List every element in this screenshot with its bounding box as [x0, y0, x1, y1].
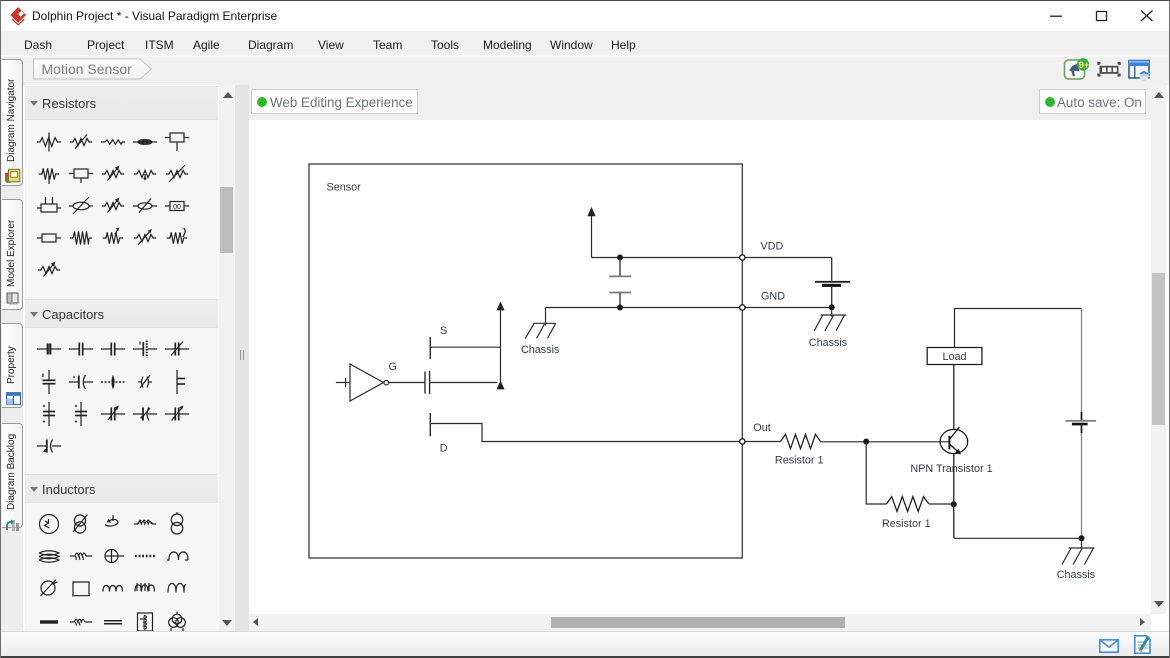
label GND: [761, 291, 785, 303]
palette capacitor icon 6: [36, 369, 62, 395]
svg-text:GND: GND: [761, 291, 785, 303]
wire Out to R1: [745, 441, 781, 443]
palette inductor icon 20: [164, 609, 190, 635]
battery B2: [1066, 412, 1097, 433]
svg-text:Sensor: Sensor: [327, 182, 362, 194]
svg-text:Resistor 1: Resistor 1: [775, 454, 824, 466]
wire channel vertical: [500, 309, 502, 383]
palette resistor icon 3: [100, 129, 126, 155]
palette resistor icon 16: [36, 225, 62, 251]
splitter: [235, 85, 249, 632]
palette inductor icon 16: [36, 609, 62, 635]
arrow channel (lower): [496, 381, 504, 390]
palette resistor icon 4: [132, 129, 158, 155]
v scrollbar: [1151, 85, 1166, 614]
status bar: [1, 631, 1170, 657]
title bar: [1, 1, 1170, 31]
transistor NPN Transistor 1: [940, 427, 968, 454]
menu bar: [1, 31, 1170, 57]
palette inductor icon 13: [100, 575, 126, 601]
palette capacitor icon 8: [100, 369, 126, 395]
wire emitter down: [953, 454, 955, 539]
wire VDD rail: [592, 257, 832, 259]
wire drain to Out: [430, 424, 742, 442]
ground chassis (power): [814, 308, 846, 331]
svg-text:D: D: [440, 443, 448, 455]
battery B1: [815, 258, 850, 308]
palette resistor icon 18: [100, 225, 126, 251]
node base junction: [863, 439, 869, 445]
palette inductor icon 1: [36, 511, 62, 537]
palette capacitor icon 15: [164, 401, 190, 427]
wire load to top rail: [955, 309, 1082, 348]
palette capacitor icon 1: [36, 336, 62, 362]
palette inductor icon 3: [100, 511, 126, 537]
palette capacitor icon 4: [132, 336, 158, 362]
wire R2 to emitter node: [929, 503, 954, 505]
palette inductor icon 11: [36, 575, 62, 601]
palette resistor icon 5: [164, 129, 190, 155]
palette resistor icon 8: [100, 161, 126, 187]
ground chassis (output): [1062, 538, 1095, 564]
wire GND rail: [546, 307, 832, 309]
palette capacitor icon 9: [132, 369, 158, 395]
resistor R2 (feedback): [886, 497, 929, 512]
svg-text:Chassis: Chassis: [521, 344, 560, 356]
node emitter junction: [951, 501, 957, 507]
label G: [389, 361, 397, 373]
palette resistor icon 19: [132, 225, 158, 251]
palette inductor icon 18: [100, 609, 126, 635]
svg-text:Chassis: Chassis: [1057, 569, 1096, 581]
port Out: [740, 439, 745, 444]
wire right rail upper: [1081, 309, 1083, 413]
palette: [25, 85, 237, 632]
wire gate to channel: [430, 382, 498, 384]
port VDD: [740, 255, 745, 260]
palette inductor icon 4: [132, 511, 158, 537]
capacitor C1 (decoupling): [609, 258, 631, 308]
palette resistor icon 21: [36, 257, 62, 283]
palette capacitor icon 10: [164, 369, 190, 395]
node battery ground junction: [829, 304, 835, 310]
palette resistor icon 14: [132, 193, 158, 219]
sidebar tabs: [1, 57, 23, 656]
label Resistor 1 (feedback): [882, 518, 931, 530]
label D: [440, 443, 448, 455]
wire GND drop to sensor chassis: [545, 308, 547, 326]
chips: [251, 89, 418, 114]
palette inductor icon 8: [100, 543, 126, 569]
palette inductor icon 10: [164, 543, 190, 569]
palette inductor icon 5: [164, 511, 190, 537]
palette capacitor icon 14: [132, 401, 158, 427]
palette inductor icon 12: [68, 575, 94, 601]
gray strip over canvas: [237, 85, 1170, 121]
ground chassis (sensor): [525, 323, 556, 338]
pin D drain bar: [429, 413, 431, 436]
palette capacitor icon 3: [100, 336, 126, 362]
palette resistor icon 7: [68, 161, 94, 187]
palette resistor icon 6: [36, 161, 62, 187]
resistor R1 (base): [781, 434, 821, 448]
label Out: [753, 422, 770, 434]
palette capacitor icon 12: [68, 401, 94, 427]
wire buffer to gate: [389, 382, 425, 384]
palette inductor icon 17: [68, 609, 94, 635]
palette inductor icon 14: [132, 575, 158, 601]
pin S source bar: [430, 337, 500, 359]
wire bottom rail: [954, 537, 1082, 539]
label Chassis (power): [809, 337, 848, 349]
palette capacitor icon 11: [36, 401, 62, 427]
palette resistor icon 17: [68, 225, 94, 251]
label Chassis (sensor): [521, 344, 560, 356]
palette resistor icon 12: [68, 193, 94, 219]
label S: [440, 325, 447, 337]
palette resistor icon 20: [164, 225, 190, 251]
load block Load: [927, 348, 982, 365]
svg-text:VDD: VDD: [761, 241, 784, 253]
canvas: [249, 120, 1151, 614]
palette resistor icon 9: [132, 161, 158, 187]
label Sensor: [327, 182, 362, 194]
node GND junction: [617, 305, 623, 311]
label Chassis (output): [1057, 569, 1096, 581]
palette resistor icon 13: [100, 193, 126, 219]
svg-text:Load: Load: [942, 351, 966, 363]
palette inductor icon 2: [68, 511, 94, 537]
wire R1 to base: [821, 441, 950, 443]
svg-text:NPN Transistor 1: NPN Transistor 1: [910, 463, 992, 475]
arrow channel (top): [496, 302, 504, 311]
power arrow (supply): [587, 207, 595, 258]
label Resistor 1 (base): [775, 454, 824, 466]
label NPN Transistor 1: [910, 463, 992, 475]
h scrollbar: [249, 614, 1151, 631]
palette resistor icon 10: [164, 161, 190, 187]
palette resistor icon 2: [68, 129, 94, 155]
svg-text:Chassis: Chassis: [809, 337, 848, 349]
palette inductor icon 6: [36, 543, 62, 569]
palette inductor icon 9: [132, 543, 158, 569]
palette resistor icon 15: [164, 193, 190, 219]
palette resistor icon 1: [36, 129, 62, 155]
palette inductor icon 19: [132, 609, 158, 635]
palette capacitor icon 2: [68, 336, 94, 362]
svg-text:G: G: [389, 361, 397, 373]
palette capacitor icon 7: [68, 369, 94, 395]
wire right rail lower: [1081, 433, 1083, 538]
node output ground junction: [1079, 535, 1085, 541]
svg-text:Resistor 1: Resistor 1: [882, 518, 931, 530]
sensor block boundary: [309, 164, 742, 558]
svg-text:S: S: [440, 325, 447, 337]
label VDD: [761, 241, 784, 253]
palette capacitor icon 5: [164, 336, 190, 362]
node VDD junction: [617, 255, 623, 261]
palette inductor icon 7: [68, 543, 94, 569]
palette scrollbar: [219, 85, 234, 632]
palette inductor icon 15: [164, 575, 190, 601]
palette capacitor icon 16: [36, 433, 62, 459]
tab row: [23, 57, 1170, 85]
palette resistor icon 11: [36, 193, 62, 219]
wire base node to R2: [866, 442, 886, 505]
port GND: [740, 305, 745, 310]
top right icons: [1063, 57, 1155, 81]
buffer amplifier U1: [336, 364, 389, 401]
wire collector: [953, 365, 955, 430]
svg-text:Out: Out: [753, 422, 770, 434]
transistor Q1 gate plates: [425, 371, 430, 394]
palette capacitor icon 13: [100, 401, 126, 427]
